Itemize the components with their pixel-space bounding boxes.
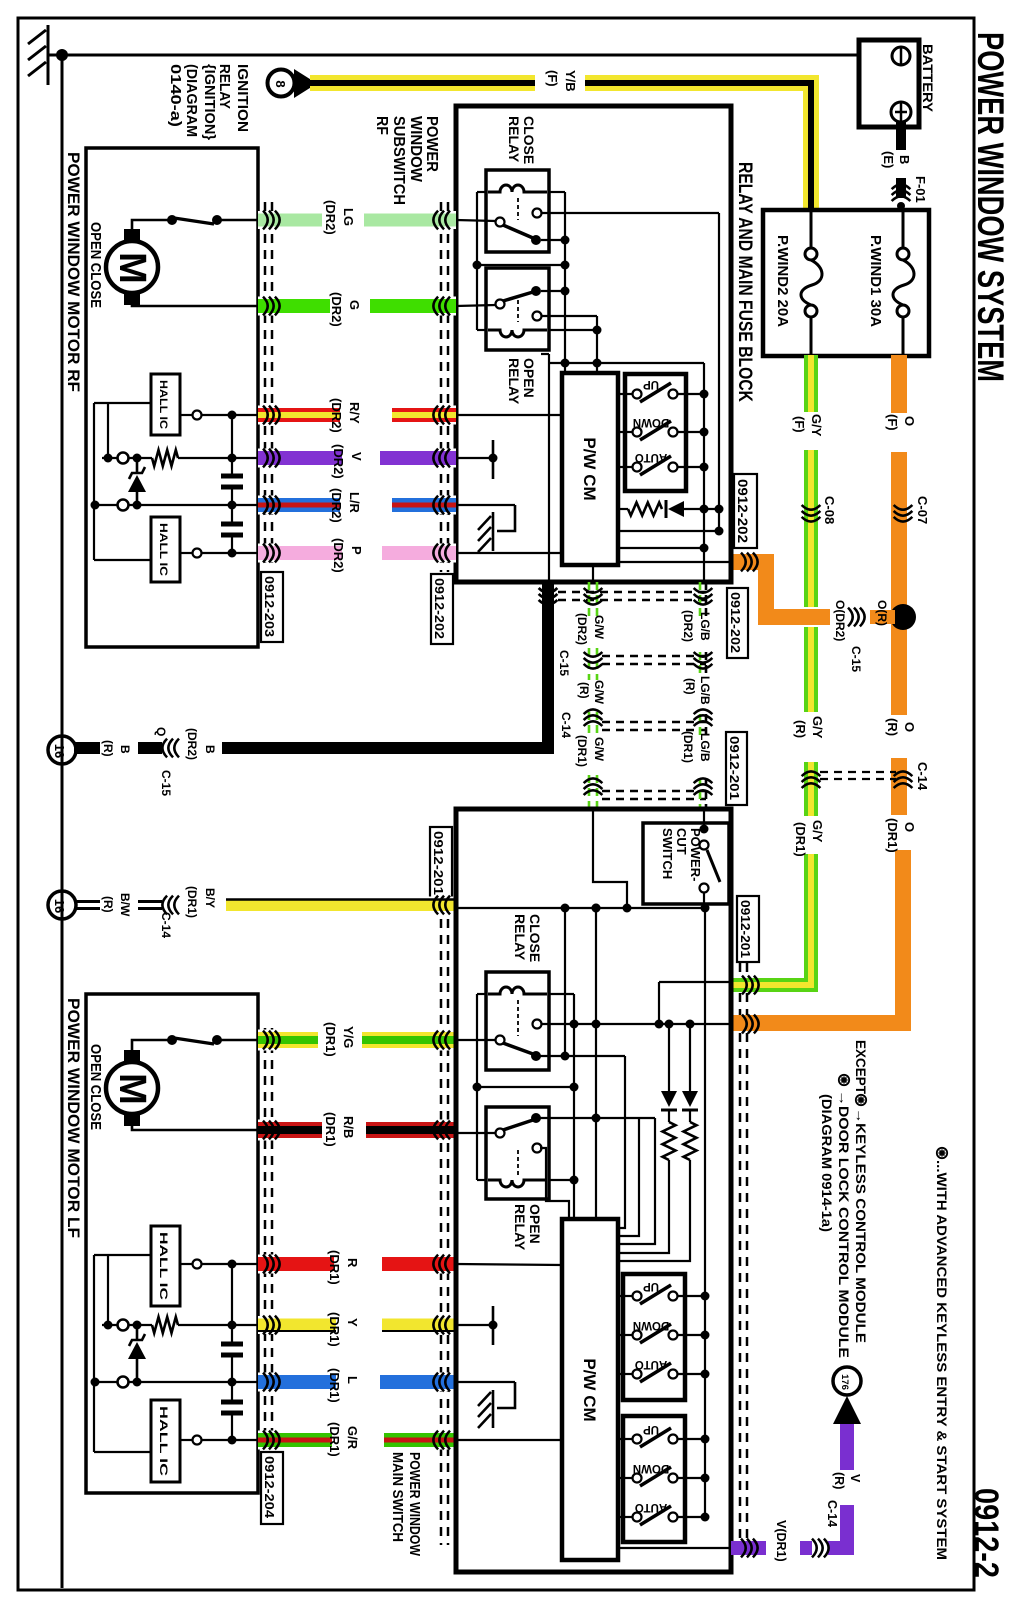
svg-text:(F): (F) <box>885 414 900 431</box>
svg-text:0912-204: 0912-204 <box>262 1456 276 1518</box>
svg-text:(R): (R) <box>885 718 900 736</box>
svg-text:16: 16 <box>52 744 67 758</box>
svg-text:G/W: G/W <box>592 737 606 762</box>
svg-text:POWER WINDOW: POWER WINDOW <box>406 1452 423 1557</box>
svg-text:G/Y: G/Y <box>810 716 825 739</box>
svg-text:R/B: R/B <box>341 1116 356 1138</box>
svg-text:(F): (F) <box>545 70 560 87</box>
svg-text:LG/B: LG/B <box>698 733 712 762</box>
svg-text:R/Y: R/Y <box>347 402 362 424</box>
svg-text:C-15: C-15 <box>849 646 863 672</box>
svg-text:C-14: C-14 <box>159 912 173 938</box>
svg-text:O(DR2): O(DR2) <box>833 600 847 641</box>
svg-text:LG/B: LG/B <box>698 676 712 705</box>
svg-text:RELAY: RELAY <box>506 116 522 163</box>
svg-text:L: L <box>345 1376 360 1384</box>
svg-text:P.WIND2 20A: P.WIND2 20A <box>774 235 790 328</box>
svg-text:UP: UP <box>643 1280 659 1292</box>
svg-text:M: M <box>111 252 153 284</box>
svg-text:(R): (R) <box>793 720 808 738</box>
svg-text:C-07: C-07 <box>915 496 930 524</box>
svg-text:(DR2): (DR2) <box>185 728 199 760</box>
svg-text:(DR1): (DR1) <box>323 1112 338 1147</box>
svg-text:(DR2): (DR2) <box>329 292 344 327</box>
svg-text:0140-a): 0140-a) <box>167 64 184 127</box>
svg-text:(DR1): (DR1) <box>885 818 900 853</box>
svg-text:POWER WINDOW MOTOR LF: POWER WINDOW MOTOR LF <box>64 998 83 1238</box>
svg-text:LG: LG <box>341 208 356 226</box>
svg-text:HALL IC: HALL IC <box>157 1232 169 1300</box>
svg-text:C-08: C-08 <box>822 496 837 524</box>
svg-text:G/Y: G/Y <box>810 820 825 843</box>
svg-text:UP: UP <box>643 1423 659 1435</box>
svg-text:O(R): O(R) <box>875 600 889 626</box>
svg-text:B: B <box>118 745 132 754</box>
svg-text:OPEN CLOSE: OPEN CLOSE <box>87 222 104 308</box>
svg-text:AUTO: AUTO <box>635 1358 667 1370</box>
svg-text:P/W CM: P/W CM <box>580 437 599 500</box>
svg-text:{IGNITION}: {IGNITION} <box>201 64 218 140</box>
svg-text:...WITH ADVANCED KEYLESS ENTRY: ...WITH ADVANCED KEYLESS ENTRY & START S… <box>934 1160 949 1560</box>
svg-text:(DR2): (DR2) <box>681 610 695 642</box>
svg-text:(DR1): (DR1) <box>185 886 199 918</box>
svg-text:RELAY AND MAIN FUSE BLOCK: RELAY AND MAIN FUSE BLOCK <box>734 162 755 402</box>
svg-text:Q: Q <box>154 727 168 736</box>
svg-text:0912-201: 0912-201 <box>727 736 741 800</box>
svg-text:C-14: C-14 <box>825 1500 839 1527</box>
svg-text:P/W CM: P/W CM <box>580 1358 599 1421</box>
svg-text:(DR2): (DR2) <box>575 613 589 645</box>
svg-text:(DR2): (DR2) <box>329 398 344 433</box>
svg-text:F-01: F-01 <box>913 176 928 203</box>
svg-text:HALL IC: HALL IC <box>157 1406 169 1476</box>
svg-text:0912-201: 0912-201 <box>431 831 445 895</box>
svg-text:EXCEPT: EXCEPT <box>853 1040 868 1095</box>
svg-text:O: O <box>902 416 917 426</box>
svg-text:O: O <box>902 822 917 832</box>
svg-text:(R): (R) <box>101 740 115 757</box>
svg-text:(DR2): (DR2) <box>323 200 338 235</box>
svg-text:C-14: C-14 <box>559 712 573 738</box>
svg-text:0912-201: 0912-201 <box>738 900 752 958</box>
svg-text:(R): (R) <box>101 896 115 913</box>
svg-text:C-15: C-15 <box>159 770 173 796</box>
svg-text:(R): (R) <box>683 678 697 695</box>
svg-text:BATTERY: BATTERY <box>920 44 935 112</box>
svg-text:V: V <box>349 452 364 461</box>
svg-text:(DR1): (DR1) <box>327 1250 342 1285</box>
svg-text:→KEYLESS CONTROL MODULE: →KEYLESS CONTROL MODULE <box>853 1108 868 1343</box>
svg-text:RELAY: RELAY <box>512 1204 528 1251</box>
svg-text:HALL IC: HALL IC <box>157 523 169 576</box>
svg-text:Y/B: Y/B <box>563 70 578 92</box>
svg-text:(DR2): (DR2) <box>329 488 344 523</box>
svg-text:UP: UP <box>643 378 659 390</box>
svg-text:G/W: G/W <box>592 680 606 705</box>
svg-text:(E): (E) <box>881 151 896 168</box>
svg-text:M: M <box>111 1073 153 1105</box>
svg-text:SUBSWITCH: SUBSWITCH <box>390 116 407 205</box>
svg-text:(DR1): (DR1) <box>681 731 695 763</box>
svg-text:8: 8 <box>273 80 288 87</box>
svg-text:O: O <box>902 722 917 732</box>
svg-text:G: G <box>347 300 362 310</box>
svg-text:C-15: C-15 <box>557 650 571 676</box>
svg-text:OPEN CLOSE: OPEN CLOSE <box>87 1044 104 1130</box>
svg-text:SWITCH: SWITCH <box>660 828 675 879</box>
svg-text:HALL IC: HALL IC <box>157 380 169 429</box>
svg-text:(R): (R) <box>577 682 591 699</box>
svg-text:POWER WINDOW SYSTEM: POWER WINDOW SYSTEM <box>970 32 1010 382</box>
svg-text:RF: RF <box>373 116 390 135</box>
svg-text:P: P <box>349 546 364 555</box>
svg-text:B/W: B/W <box>118 893 132 917</box>
svg-text:C-14: C-14 <box>915 762 930 791</box>
svg-text:AUTO: AUTO <box>635 1501 667 1513</box>
svg-text:DOWN: DOWN <box>633 1319 669 1331</box>
svg-text:DOWN: DOWN <box>633 1462 669 1474</box>
svg-text:R: R <box>345 1258 360 1268</box>
svg-text:OPEN: OPEN <box>527 1204 543 1244</box>
svg-text:V(DR1): V(DR1) <box>774 1520 788 1562</box>
svg-text:RELAY: RELAY <box>512 914 528 961</box>
svg-text:AUTO: AUTO <box>635 451 667 463</box>
svg-text:0912-203: 0912-203 <box>262 576 276 637</box>
svg-text:G/Y: G/Y <box>809 414 824 437</box>
svg-text:(DR2): (DR2) <box>331 444 346 479</box>
svg-text:CUT: CUT <box>674 828 689 855</box>
svg-text:POWER: POWER <box>423 116 440 172</box>
svg-text:CLOSE: CLOSE <box>527 914 543 962</box>
svg-text:(DR1): (DR1) <box>575 735 589 767</box>
svg-text:V: V <box>848 1474 862 1483</box>
svg-text:Y: Y <box>345 1318 360 1327</box>
svg-text:IGNITION: IGNITION <box>234 64 251 132</box>
svg-text:(F): (F) <box>792 416 807 433</box>
svg-text:0912-202: 0912-202 <box>735 479 750 543</box>
svg-text:B/Y: B/Y <box>203 888 217 908</box>
svg-text:(DIAGRAM 0914-1a): (DIAGRAM 0914-1a) <box>819 1094 834 1232</box>
svg-text:RELAY: RELAY <box>506 358 522 405</box>
svg-text:0912-2: 0912-2 <box>967 1488 1005 1578</box>
svg-text:LG/B: LG/B <box>698 612 712 641</box>
svg-text:(DR2): (DR2) <box>331 538 346 573</box>
svg-text:POWER-: POWER- <box>688 828 703 881</box>
svg-text:16: 16 <box>52 899 67 913</box>
svg-text:G/W: G/W <box>592 615 606 640</box>
svg-text:176: 176 <box>839 1374 850 1390</box>
svg-text:→DOOR LOCK CONTROL MODULE: →DOOR LOCK CONTROL MODULE <box>836 1090 851 1358</box>
svg-text:POWER WINDOW MOTOR RF: POWER WINDOW MOTOR RF <box>64 152 83 392</box>
svg-text:G/R: G/R <box>345 1426 360 1450</box>
svg-text:(DIAGRAM: (DIAGRAM <box>183 64 200 137</box>
svg-text:(DR1): (DR1) <box>793 822 808 857</box>
svg-text:OPEN: OPEN <box>521 358 537 398</box>
svg-text:DOWN: DOWN <box>633 416 669 428</box>
svg-text:CLOSE: CLOSE <box>521 116 537 164</box>
svg-text:(DR1): (DR1) <box>327 1422 342 1457</box>
svg-text:MAIN SWITCH: MAIN SWITCH <box>389 1452 406 1542</box>
svg-text:0912-202: 0912-202 <box>432 578 446 639</box>
svg-text:(R): (R) <box>832 1472 846 1489</box>
svg-text:0912-202: 0912-202 <box>728 592 742 653</box>
svg-text:B: B <box>897 155 912 164</box>
svg-text:WINDOW: WINDOW <box>407 116 424 182</box>
svg-text:B: B <box>203 745 217 754</box>
svg-text:P.WIND1 30A: P.WIND1 30A <box>867 235 883 328</box>
svg-text:(DR1): (DR1) <box>327 1368 342 1403</box>
svg-text:L/R: L/R <box>347 492 362 514</box>
svg-text:(DR1): (DR1) <box>327 1312 342 1347</box>
svg-text:Y/G: Y/G <box>341 1026 356 1048</box>
svg-text:(DR1): (DR1) <box>323 1022 338 1057</box>
